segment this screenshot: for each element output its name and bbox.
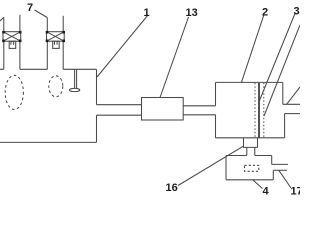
leader line cropped right upper xyxy=(264,25,300,116)
wire pipe17 lower xyxy=(273,169,287,171)
svg-text:1: 1 xyxy=(144,7,150,19)
wire pipe2 left wall lower xyxy=(46,41,48,69)
leader line 3 xyxy=(260,14,296,101)
leader tick at left edge xyxy=(0,17,4,21)
electrode plate solid xyxy=(258,83,260,138)
wire pipe2 right wall upper xyxy=(62,16,64,32)
wire pipe box13 to box2 lower xyxy=(183,114,215,116)
box 2 bottom edge xyxy=(216,137,285,139)
svg-text:2: 2 xyxy=(262,7,268,19)
svg-text:16: 16 xyxy=(166,182,178,194)
leader line 17 xyxy=(279,170,291,188)
leader line cropped right lower xyxy=(287,87,301,104)
box 4 right edge upper xyxy=(271,156,273,165)
wire pipe box13 to box2 upper xyxy=(183,105,215,107)
dashed ellipse right xyxy=(49,76,63,97)
leader line 4 xyxy=(253,180,263,189)
leader line 13 xyxy=(160,17,189,98)
valve V1 body xyxy=(2,31,21,42)
electrode dotted line right xyxy=(263,83,265,138)
dashed rect inside box4 xyxy=(245,165,259,171)
leader line 16 xyxy=(178,146,243,185)
wire pipe2 left wall upper xyxy=(46,18,48,32)
svg-text:13: 13 xyxy=(186,7,198,19)
leader line 2 xyxy=(242,15,265,83)
wire pipe tank to box13 lower xyxy=(97,114,142,116)
box 4 left edge xyxy=(225,156,227,180)
valve V2 body xyxy=(46,31,65,42)
svg-text:17: 17 xyxy=(291,186,301,198)
box 2 left edge lower xyxy=(215,115,217,138)
stirrer disc xyxy=(69,88,79,91)
wire pipe1 right wall upper xyxy=(19,15,21,32)
svg-text:4: 4 xyxy=(263,186,270,198)
tank right edge upper xyxy=(96,69,98,104)
box 2 left edge upper xyxy=(215,82,217,105)
tank bottom edge xyxy=(0,141,97,143)
box 4 top edge segments xyxy=(226,155,272,157)
box 4 bottom edge xyxy=(226,179,273,181)
leader line 7 xyxy=(35,10,48,18)
wire pipe1 right wall lower xyxy=(19,41,21,69)
wire pipe1 left wall lower xyxy=(3,41,5,69)
wire pipe tank to box13 upper xyxy=(97,104,142,106)
valve V2 stem xyxy=(53,41,60,48)
svg-text:3: 3 xyxy=(294,6,300,18)
dashed ellipse left xyxy=(5,75,23,109)
tank top edge segments xyxy=(0,68,97,70)
box 4 right edge lower xyxy=(272,170,274,180)
wire pipe1 left wall upper xyxy=(3,17,5,31)
wire pipe17 upper xyxy=(272,163,288,165)
neck box between box2 and box4 xyxy=(244,138,258,148)
connector passage left wall xyxy=(246,147,248,155)
wire pipe2 right wall lower xyxy=(62,41,64,69)
electrode dotted line left xyxy=(254,83,256,138)
svg-text:7: 7 xyxy=(27,2,33,14)
connector passage right wall xyxy=(254,147,256,155)
box 2 top edge xyxy=(216,81,283,83)
box 2 right edge upper xyxy=(282,82,284,104)
valve V1 stem xyxy=(9,41,16,48)
wire box2 right outlet upper xyxy=(283,103,300,105)
box 2 right lower jog xyxy=(284,114,286,138)
stirrer rod xyxy=(75,69,77,88)
tank right edge lower xyxy=(96,115,98,142)
wire box2 right outlet lower xyxy=(285,113,300,115)
leader line 1 xyxy=(97,15,148,77)
box 13 xyxy=(142,98,184,121)
